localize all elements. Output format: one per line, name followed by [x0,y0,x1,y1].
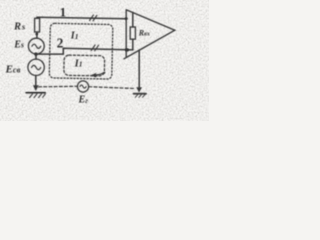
ground (right) [134,93,146,95]
source Es [28,38,44,54]
svg-text:1: 1 [60,5,67,20]
svg-text:Есв: Есв [5,63,21,75]
break mark // on wire 2 [91,45,98,51]
svg-text:I1: I1 [74,58,83,69]
junction node resistor Rs / Es [36,33,39,36]
outer dashed screen box [49,23,113,79]
junction node wire2 / triangle input [125,48,129,51]
resistor Rvx (inside triangle) [130,27,135,39]
wire 2 (from junction, with step) [36,48,133,54]
wire Rvx bottom lead [132,39,134,50]
arrow down into left ground [33,85,39,91]
resistor Rs [35,18,40,32]
wire output to ground [138,50,140,88]
inner dashed loop box [64,55,105,76]
svg-text:2: 2 [57,36,64,51]
wire resistor bottom lead [36,32,38,38]
arrow down into right ground [136,87,142,92]
ground (left) [26,92,45,94]
junction node wire1 / triangle input [125,17,128,19]
wire Es to junction [35,54,37,59]
dashed ground return line (left) [39,85,78,88]
op-amp U1 triangle [124,10,175,59]
junction node between Es and Ecb [34,53,37,56]
break mark // on wire 1 [90,15,97,21]
loop current arrow (inner box) [91,72,105,78]
source Eg [77,81,88,92]
svg-text:I1: I1 [70,31,79,42]
dashed ground return line (right) [89,87,135,89]
svg-text:Rs: Rs [13,22,26,33]
wire Rvx top lead [132,12,134,27]
wire resistor top lead [36,17,38,18]
wire 1 (top horizontal) [37,17,126,19]
svg-text:Es: Es [13,39,24,50]
source Ecb [28,59,44,75]
svg-text:Ег: Ег [78,95,89,106]
wire Ecb to ground [35,76,37,87]
